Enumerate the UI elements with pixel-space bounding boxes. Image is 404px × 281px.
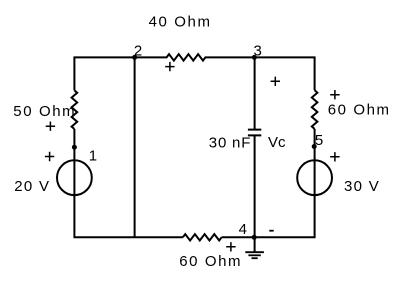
capacitor C 30 nF plates: [248, 130, 261, 136]
wire: 50 Ohm through node 1 and source 1 to bottom-left corner, over to bottom 60 Ohm: [74, 129, 182, 237]
svg-text:Vc: Vc: [268, 134, 286, 151]
node 2 junction dot: [132, 55, 137, 60]
svg-text:3: 3: [254, 43, 262, 60]
svg-text:60 Ohm: 60 Ohm: [328, 102, 391, 119]
polarity + of right 60 Ohm: [330, 90, 339, 99]
wire: 50 Ohm up to top-left corner and over to node 2: [74, 57, 134, 90]
wire: capacitor bottom plate down to node 4: [254, 135, 256, 237]
wire: node 2 down to bottom wire: [134, 57, 136, 237]
wire: bottom 60 Ohm to node 4: [222, 236, 255, 238]
polarity - of Vc (node 4): [269, 230, 273, 232]
voltage source 1 circle (20 V): [57, 160, 92, 195]
resistor 50 Ohm (left branch): [72, 90, 78, 129]
node 4 junction dot: [252, 235, 257, 240]
polarity + of Vc (node 3): [271, 77, 280, 86]
svg-text:20 V: 20 V: [14, 178, 50, 195]
svg-text:50 Ohm: 50 Ohm: [13, 103, 76, 120]
wire: node 3 down to capacitor top plate: [254, 57, 256, 129]
svg-text:60 Ohm: 60 Ohm: [179, 253, 242, 270]
polarity + of source 5: [330, 152, 339, 161]
svg-text:2: 2: [134, 43, 142, 60]
polarity + of 40 Ohm: [165, 62, 174, 71]
voltage source 5 circle (30 V): [297, 160, 332, 195]
resistor 40 Ohm (node 2 to node 3): [135, 54, 255, 60]
svg-text:30 V: 30 V: [344, 178, 380, 195]
node 3 junction dot: [252, 55, 257, 60]
resistor 60 Ohm (right branch): [312, 90, 318, 129]
svg-text:1: 1: [89, 147, 97, 164]
polarity + of source 1: [45, 152, 54, 161]
node 5 junction dot: [312, 144, 317, 149]
polarity + of bottom 60 Ohm: [226, 242, 235, 251]
polarity + of 50 Ohm: [46, 122, 55, 131]
wire: 60 Ohm through node 5 and source 5 to bottom-right corner, over to node 4: [255, 129, 315, 237]
node 1 junction dot: [72, 145, 77, 150]
resistor 60 Ohm (bottom wire): [183, 234, 222, 240]
svg-text:5: 5: [315, 132, 323, 149]
ground symbol at node 4: [245, 237, 264, 258]
svg-text:4: 4: [239, 221, 247, 238]
svg-text:40 Ohm: 40 Ohm: [149, 13, 212, 30]
svg-text:30 nF: 30 nF: [209, 134, 251, 151]
wire: node 3 over to top-right corner and down to 60 Ohm: [255, 57, 315, 90]
